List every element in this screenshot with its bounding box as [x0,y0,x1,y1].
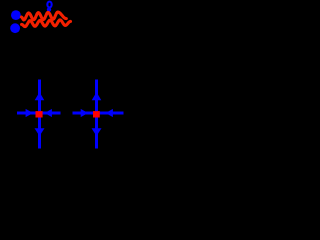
lattice site 1: down arrowhead (outward) [35,128,45,136]
lattice site 2: horizontal axis line [73,112,124,115]
lattice site 1: up arrowhead (outward) [35,92,45,100]
lattice site 1: horizontal axis line [17,112,61,115]
lattice site 2: left-arm arrowhead (inward, points right) [81,109,88,117]
lattice site 2: right-arm arrowhead (inward, points left) [106,109,113,117]
excited atom: nucleus dot [47,7,51,11]
excited atom: orbit ellipse ring [47,2,51,8]
lattice site 1: vertical axis line [38,80,41,149]
lattice site 2: vertical axis line [95,80,98,149]
lattice site 2: red square marker [93,111,100,117]
lattice site 1: red square marker [36,111,43,117]
lattice site 1: left-arm arrowhead (inward, points right) [26,109,34,117]
atom (blue filled circle, upper-left pair top) [11,10,21,20]
lattice site 2: up arrowhead (outward) [92,92,102,100]
photon wavy line (top) [21,12,66,20]
atom (blue filled circle, upper-left pair bottom) [10,23,20,33]
lattice site 2: down arrowhead (outward) [92,128,102,136]
lattice site 1: right-arm arrowhead (inward, points left) [45,109,52,117]
photon wavy line (bottom) [22,20,71,27]
